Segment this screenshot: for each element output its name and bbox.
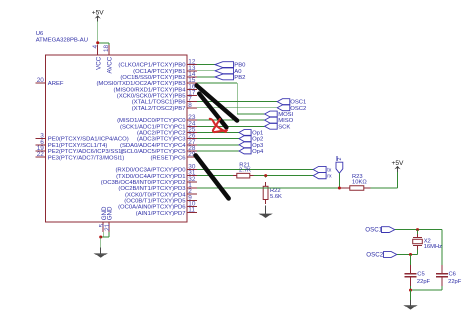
svg-text:PE1(PTCXY/SCL1/T4): PE1(PTCXY/SCL1/T4) — [48, 143, 108, 149]
svg-text:ATMEGA328PB-AU: ATMEGA328PB-AU — [36, 38, 88, 44]
svg-text:(ADC2/PTCY)PC2: (ADC2/PTCY)PC2 — [137, 131, 185, 137]
svg-text:8: 8 — [188, 102, 192, 109]
svg-text:18: 18 — [103, 44, 110, 52]
svg-text:GND: GND — [106, 206, 113, 220]
svg-text:22: 22 — [37, 151, 45, 158]
svg-text:(OC2B/INT1/PTCXY)PD3: (OC2B/INT1/PTCXY)PD3 — [118, 186, 186, 192]
svg-text:(OC1A/PTCXY)PB1: (OC1A/PTCXY)PB1 — [133, 69, 185, 75]
svg-text:OSC2: OSC2 — [366, 252, 383, 259]
svg-text:Op3: Op3 — [252, 143, 264, 149]
svg-text:Op4: Op4 — [252, 149, 264, 155]
svg-text:MISO: MISO — [278, 118, 293, 124]
svg-text:(OC0A/AIN0/PTCXY)PD6: (OC0A/AIN0/PTCXY)PD6 — [118, 205, 186, 211]
svg-text:(XTAL2/TOSC2)PB7: (XTAL2/TOSC2)PB7 — [132, 106, 186, 112]
svg-text:11: 11 — [188, 207, 195, 214]
svg-text:(RXD0/OC3A/PTCXY)PD0: (RXD0/OC3A/PTCXY)PD0 — [115, 168, 186, 174]
svg-text:(OC0B/T1/PTCXY)PD5: (OC0B/T1/PTCXY)PD5 — [124, 198, 186, 204]
svg-text:Op2: Op2 — [252, 137, 263, 143]
svg-text:PB0: PB0 — [234, 63, 246, 69]
svg-text:PE2(PTCY/ADC6/ICP3/SS1): PE2(PTCY/ADC6/ICP3/SS1) — [48, 149, 124, 155]
svg-text:(OC3B/OC4B/INT0/PTCXY)PD2: (OC3B/OC4B/INT0/PTCXY)PD2 — [101, 180, 186, 186]
svg-text:C5: C5 — [417, 272, 424, 278]
svg-text:PB2: PB2 — [234, 75, 245, 81]
svg-text:(TXD0/OC4A/PTCXY)PD1: (TXD0/OC4A/PTCXY)PD1 — [116, 174, 185, 180]
svg-text:(SCL0/ADC5/PTCY)PC5: (SCL0/ADC5/PTCY)PC5 — [121, 149, 187, 155]
svg-text:(SCK1/ADC1/PTCY)PC1: (SCK1/ADC1/PTCY)PC1 — [120, 124, 185, 130]
svg-text:22pF: 22pF — [417, 279, 431, 285]
svg-text:(MISO0/RXD1/PTCXY)PB4: (MISO0/RXD1/PTCXY)PB4 — [113, 87, 186, 93]
svg-text:21: 21 — [104, 223, 111, 231]
svg-text:tx: tx — [327, 167, 331, 173]
svg-text:VCC: VCC — [95, 56, 102, 70]
svg-text:PE3(PTCY/ADC7/T3/MOSI1): PE3(PTCY/ADC7/T3/MOSI1) — [48, 155, 125, 161]
svg-text:2.7K: 2.7K — [239, 168, 251, 174]
svg-text:(XCK0/T0/PTCXY)PD4: (XCK0/T0/PTCXY)PD4 — [125, 192, 186, 198]
svg-text:OSC2: OSC2 — [290, 106, 306, 112]
svg-text:A0: A0 — [234, 69, 242, 75]
svg-text:+5V: +5V — [392, 160, 405, 167]
svg-text:AREF: AREF — [48, 81, 64, 87]
svg-text:16MHz: 16MHz — [424, 244, 442, 250]
svg-text:5.6K: 5.6K — [270, 194, 282, 200]
svg-text:(AIN1/PTCXY)PD7: (AIN1/PTCXY)PD7 — [136, 211, 186, 217]
svg-text:(RESET)PC6: (RESET)PC6 — [150, 155, 186, 161]
svg-text:(OC1B/SS0/PTCXY)PB2: (OC1B/SS0/PTCXY)PB2 — [120, 75, 185, 81]
svg-text:22pF: 22pF — [448, 279, 462, 285]
svg-text:MOSI: MOSI — [278, 112, 293, 118]
svg-text:AVCC: AVCC — [107, 56, 114, 73]
svg-text:OSC1: OSC1 — [290, 100, 306, 106]
svg-text:+5V: +5V — [92, 10, 105, 17]
svg-text:OSC1: OSC1 — [365, 227, 382, 234]
svg-text:10KΩ: 10KΩ — [352, 179, 367, 185]
svg-text:20: 20 — [37, 77, 45, 84]
svg-text:(MISO1/ADC0/PTCY)PC0: (MISO1/ADC0/PTCY)PC0 — [117, 118, 186, 124]
svg-text:rx: rx — [327, 173, 332, 179]
svg-text:(XCK0/SCK0/PTCXY)PB5: (XCK0/SCK0/PTCXY)PB5 — [117, 94, 186, 100]
svg-text:U6: U6 — [36, 31, 44, 37]
svg-text:C6: C6 — [449, 272, 456, 278]
svg-text:(MOSI0/TXD1/OC2A/PTCXY)PB3: (MOSI0/TXD1/OC2A/PTCXY)PB3 — [96, 81, 186, 87]
svg-text:SCK: SCK — [278, 124, 290, 130]
svg-text:2: 2 — [337, 158, 343, 161]
svg-text:Op1: Op1 — [252, 131, 263, 137]
svg-text:(ADC3/PTCY)PC3: (ADC3/PTCY)PC3 — [137, 137, 186, 143]
svg-text:(SDA0/ADC4/PTCY)PC4: (SDA0/ADC4/PTCY)PC4 — [120, 143, 186, 149]
svg-text:(CLKO/ICP1/PTCXY)PB0: (CLKO/ICP1/PTCXY)PB0 — [118, 63, 186, 69]
svg-text:(XTAL1/TOSC1)PB6: (XTAL1/TOSC1)PB6 — [132, 100, 187, 106]
svg-text:PE0(PTCXY/SDA1/ICP4/ACO): PE0(PTCXY/SDA1/ICP4/ACO) — [48, 137, 129, 143]
